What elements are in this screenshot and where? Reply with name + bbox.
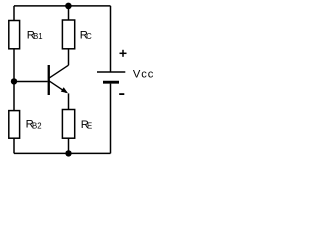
wire RC top stub xyxy=(68,6,70,20)
svg-text:C: C xyxy=(86,32,92,41)
label RE xyxy=(81,119,92,131)
wire left rail lower (RB2 to bottom) xyxy=(13,138,15,153)
label RC xyxy=(80,29,92,41)
wire left rail middle (RB1 to RB2) xyxy=(13,49,15,111)
label RB1 xyxy=(27,29,43,41)
wire left rail upper (top to RB1) xyxy=(13,6,15,21)
resistor RE xyxy=(62,110,74,139)
wire collector vertical xyxy=(68,49,70,65)
wire base xyxy=(14,81,48,83)
battery V1 positive plate xyxy=(97,71,125,73)
wire emitter vertical xyxy=(68,93,70,109)
battery V1 negative plate xyxy=(103,81,119,84)
resistor RC xyxy=(62,20,74,49)
label VCC xyxy=(133,68,154,80)
label minus xyxy=(119,93,124,95)
resistor RB1 xyxy=(9,21,20,49)
resistor RB2 xyxy=(9,111,20,139)
label plus xyxy=(120,50,127,57)
svg-text:E: E xyxy=(87,121,92,130)
svg-text:B2: B2 xyxy=(32,121,42,130)
wire right rail lower (battery to bottom) xyxy=(110,84,112,154)
wire right rail upper (top to battery) xyxy=(110,6,112,72)
label RB2 xyxy=(26,119,42,131)
wire RE bottom stub xyxy=(68,138,70,153)
node bottom junction xyxy=(65,150,71,156)
svg-text:B1: B1 xyxy=(33,32,43,41)
node top junction xyxy=(65,3,72,10)
wire collector diagonal xyxy=(49,65,68,78)
transistor Q1 base bar xyxy=(48,65,50,95)
wire top rail xyxy=(14,5,111,7)
transistor Q1 emitter with arrow xyxy=(49,81,68,93)
node base junction xyxy=(11,78,17,84)
svg-text:Vcc: Vcc xyxy=(133,68,154,80)
wire bottom rail xyxy=(14,152,111,154)
